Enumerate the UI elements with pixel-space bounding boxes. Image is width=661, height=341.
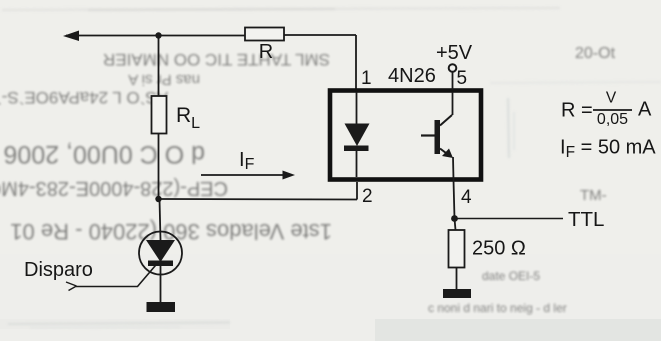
svg-text:c noni d nari to neig - d le: c noni d nari to neig - d ler xyxy=(428,301,567,315)
wire: node C down to 250 ohm resistor xyxy=(455,219,456,231)
node A: top junction dot xyxy=(155,32,161,38)
wire: top node down to RL xyxy=(158,36,160,97)
svg-text:+5V: +5V xyxy=(436,42,473,64)
wire: R to bend xyxy=(284,34,356,36)
wire: pin 2 vertical xyxy=(356,182,358,200)
phototransistor inside optocoupler xyxy=(421,92,454,180)
svg-text:AS`O L 24aPA9OE`S-`: AS`O L 24aPA9OE`S-` xyxy=(0,88,168,107)
svg-text:R =: R = xyxy=(561,100,593,122)
wire: RL to bottom node xyxy=(158,133,160,199)
svg-text:5: 5 xyxy=(457,68,468,89)
resistor RL xyxy=(152,96,201,134)
wire: top rail from arrow to R xyxy=(66,35,245,37)
svg-text:TTL: TTL xyxy=(568,208,604,231)
arrow: off-page connection left xyxy=(63,31,79,42)
svg-text:4N26: 4N26 xyxy=(388,65,436,87)
terminal +5V xyxy=(449,64,457,72)
wire: node down to SCR xyxy=(160,199,161,240)
svg-text:2: 2 xyxy=(362,186,373,207)
svg-text:20-Ot: 20-Ot xyxy=(575,45,616,62)
resistor 250 ohm xyxy=(449,230,526,268)
LED inside optocoupler xyxy=(344,92,370,177)
ground: right xyxy=(443,289,471,298)
svg-text:Disparo: Disparo xyxy=(24,259,93,281)
thyristor Q1 (SCR) xyxy=(66,232,182,291)
svg-text:date OEI-5: date OEI-5 xyxy=(482,269,540,283)
wire: gate lead xyxy=(76,263,158,287)
svg-text:d O C 0U00, 2006: d O C 0U00, 2006 xyxy=(3,140,205,168)
wire: pin 4 down to node C xyxy=(454,180,455,219)
svg-text:V: V xyxy=(606,90,617,107)
wire: SCR cathode to ground xyxy=(160,266,162,302)
svg-text:250 Ω: 250 Ω xyxy=(472,238,526,260)
annotation: IF current arrow xyxy=(201,149,295,180)
wire: node C to TTL xyxy=(455,218,564,220)
svg-text:R: R xyxy=(259,41,273,63)
optocoupler U1 4N26 box xyxy=(330,91,481,180)
svg-text:IF = 50 mA: IF = 50 mA xyxy=(560,137,656,162)
node C junction dot xyxy=(451,215,458,222)
svg-text:A: A xyxy=(638,99,652,121)
svg-text:4: 4 xyxy=(461,187,472,208)
ground: left xyxy=(147,302,176,312)
resistor R xyxy=(245,28,284,64)
wire: pin 5 to +5V terminal xyxy=(452,72,454,90)
svg-text:nas Pr si A: nas Pr si A xyxy=(128,71,200,88)
wire: bottom node to pin 2 horizontal xyxy=(159,198,358,201)
wire: resistor to ground xyxy=(456,268,458,290)
svg-text:TM-: TM- xyxy=(580,187,607,204)
svg-text:SML TAHTE TIC OO NMAIER: SML TAHTE TIC OO NMAIER xyxy=(103,50,330,69)
svg-text:0,05: 0,05 xyxy=(597,111,628,128)
svg-text:1: 1 xyxy=(361,68,372,89)
node B: bottom-left junction dot xyxy=(155,196,161,202)
wire: bend down to pin 1 xyxy=(355,35,357,90)
formula R = V / 0,05 A xyxy=(561,90,652,129)
svg-text:CEP-(228-4000E-283-4MO-: CEP-(228-4000E-283-4MO- xyxy=(0,177,228,199)
